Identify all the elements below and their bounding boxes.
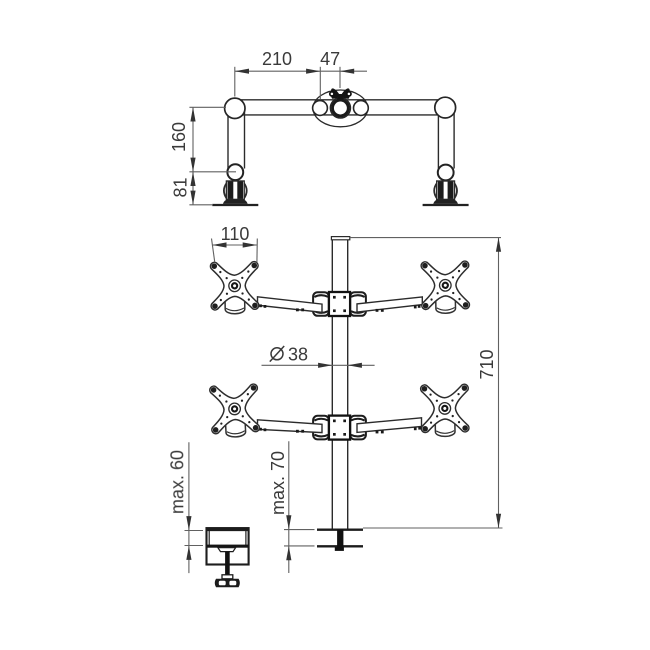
svg-text:47: 47 — [320, 49, 340, 69]
svg-text:max. 60: max. 60 — [167, 450, 187, 514]
svg-text:38: 38 — [288, 344, 308, 364]
svg-text:210: 210 — [262, 49, 292, 69]
svg-text:110: 110 — [221, 224, 250, 244]
svg-text:max. 70: max. 70 — [268, 451, 288, 515]
svg-text:81: 81 — [171, 177, 191, 197]
svg-text:710: 710 — [477, 349, 497, 379]
svg-text:160: 160 — [169, 122, 189, 152]
